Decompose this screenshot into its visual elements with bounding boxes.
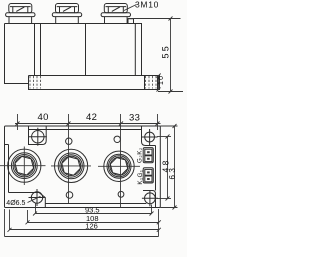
svg-text:10: 10 bbox=[158, 75, 165, 85]
svg-text:3M10: 3M10 bbox=[135, 0, 159, 9]
svg-text:G₂K₂: G₂K₂ bbox=[137, 147, 144, 163]
svg-text:126: 126 bbox=[85, 221, 98, 230]
svg-text:63: 63 bbox=[168, 166, 177, 180]
svg-text:33: 33 bbox=[129, 113, 140, 124]
svg-text:4Ø6.5: 4Ø6.5 bbox=[6, 200, 25, 207]
svg-text:K₁G₁: K₁G₁ bbox=[137, 169, 144, 184]
svg-text:42: 42 bbox=[86, 112, 97, 123]
svg-text:40: 40 bbox=[38, 112, 49, 123]
svg-text:55: 55 bbox=[160, 44, 170, 58]
